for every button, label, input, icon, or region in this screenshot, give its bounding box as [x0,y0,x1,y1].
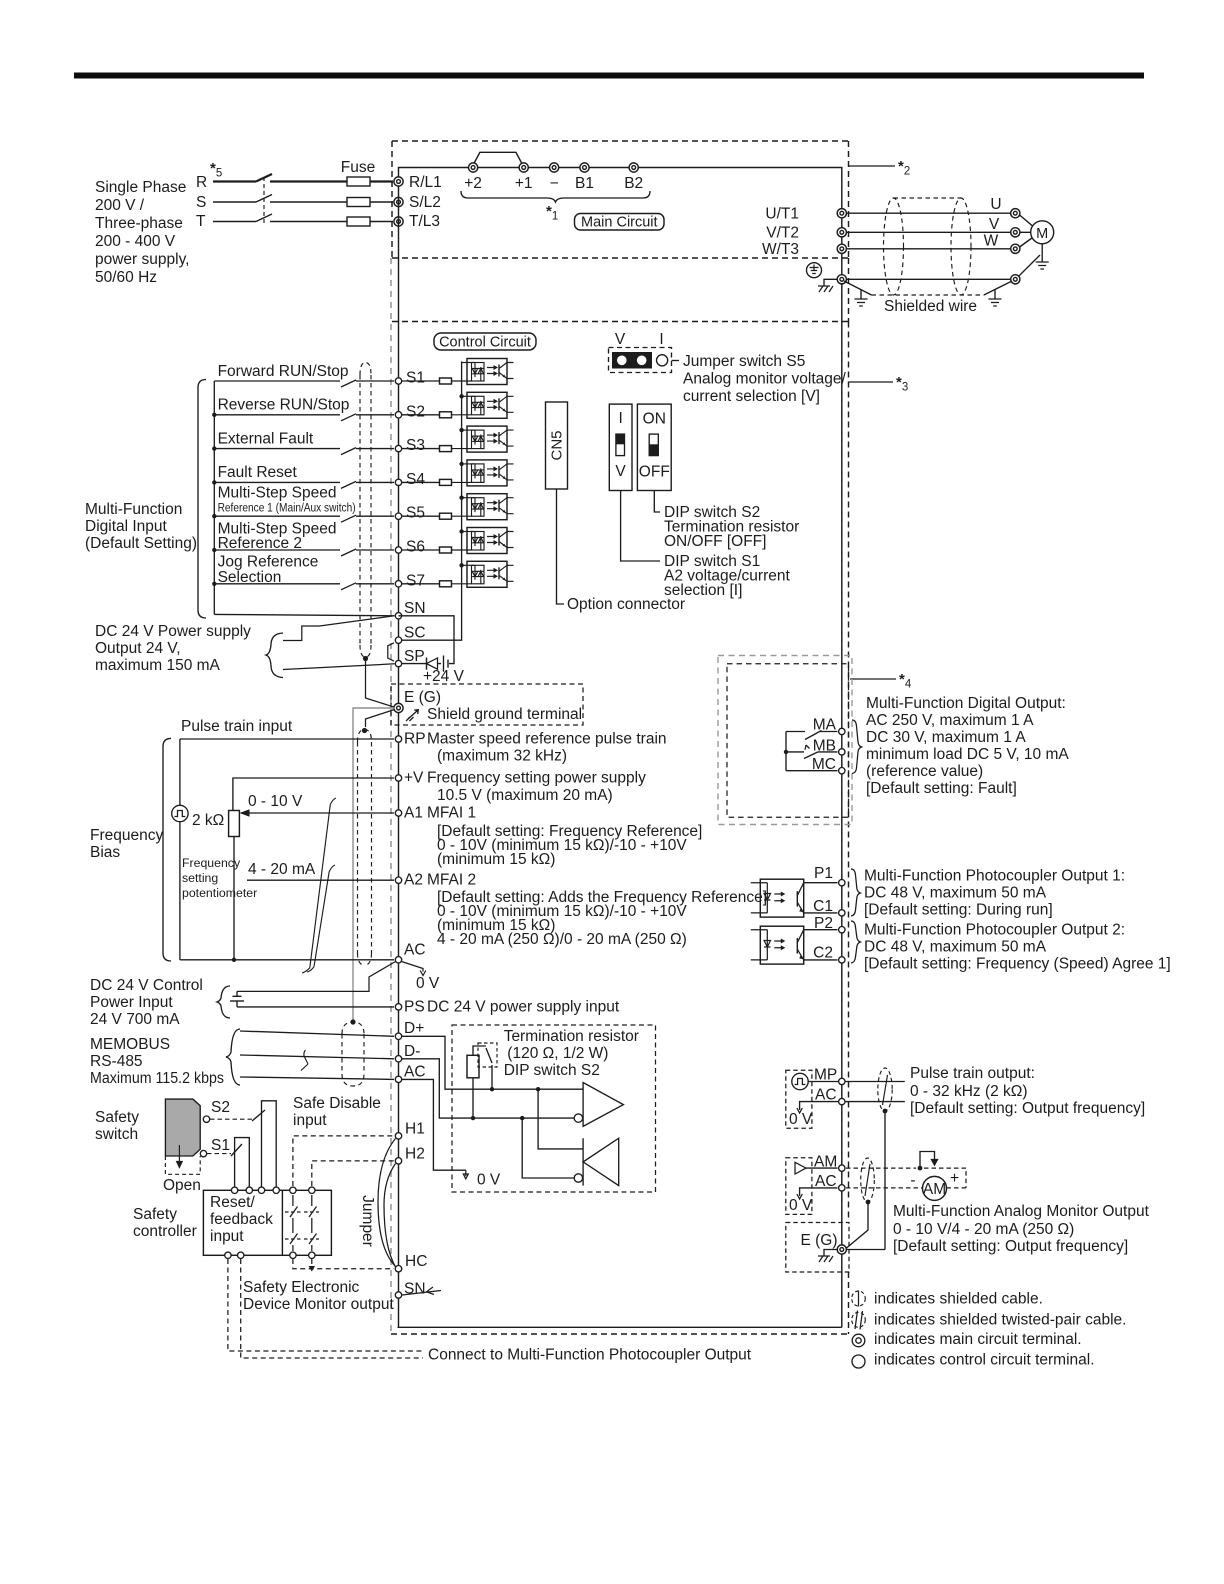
battery brace [217,986,230,1018]
terminal S4 [395,479,401,485]
svg-text:H2: H2 [405,1146,425,1163]
safe disable dashed wires to H1 H2 [293,1136,394,1186]
svg-text:Jog Reference: Jog Reference [218,554,319,571]
svg-text:W/T3: W/T3 [762,241,799,258]
opto-isolator input S6 [402,549,440,551]
svg-text:+2: +2 [464,175,482,192]
terminal S6 [395,547,401,553]
note *4 callout [850,678,896,680]
legend control circuit terminal [852,1355,865,1368]
svg-text:indicates shielded twisted-pai: indicates shielded twisted-pair cable. [874,1312,1126,1329]
SC-SP bracket [388,643,394,661]
pulse output shield cable [878,1068,892,1111]
S1 contact [200,1150,206,1156]
terminal D- [240,1055,394,1059]
svg-text:AM: AM [814,1154,837,1171]
svg-text:SP: SP [404,648,425,665]
digital input S3 row [214,448,394,455]
E(G) shield ground dashed box [391,684,583,725]
svg-text:C1: C1 [813,898,833,915]
svg-text:T/L3: T/L3 [409,213,440,230]
digital input S2 row [214,414,394,421]
svg-text:A1: A1 [404,805,423,822]
junction dots on common bus [212,413,216,586]
driver buffer triangle [583,1083,623,1127]
svg-text:indicates shielded cable.: indicates shielded cable. [874,1291,1043,1308]
svg-text:V: V [615,463,626,480]
terminal MP [808,1081,905,1083]
svg-text:M: M [1036,226,1048,242]
svg-text:Control Circuit: Control Circuit [439,335,531,351]
terminal MC [839,768,845,774]
digital input S7 row [214,583,394,590]
E(G) wire to shield drain [846,1249,885,1251]
wire R fuse to terminal [370,180,393,182]
svg-text:0 V: 0 V [789,1111,813,1128]
svg-text:S2: S2 [211,1099,230,1116]
svg-text:Pulse train input: Pulse train input [181,718,293,735]
svg-text:D+: D+ [404,1020,424,1037]
svg-text:D-: D- [404,1043,420,1060]
wire S with disconnect switch [213,195,393,203]
svg-text:DC 48 V, maximum 50 mA: DC 48 V, maximum 50 mA [864,939,1047,956]
svg-text:power supply,: power supply, [95,251,189,268]
svg-text:DC 24 V Power supply: DC 24 V Power supply [95,623,251,640]
svg-text:0 V: 0 V [477,1172,501,1189]
svg-text:Three-phase: Three-phase [95,215,183,232]
svg-text:50/60 Hz: 50/60 Hz [95,269,157,286]
svg-text:A2: A2 [404,872,423,889]
analog input shield cable [358,730,372,966]
switch gang dashed link [263,177,265,226]
svg-text:indicates control circuit term: indicates control circuit terminal. [874,1352,1095,1369]
svg-text:T: T [196,213,206,230]
svg-text:DC 24 V Control: DC 24 V Control [90,977,203,994]
svg-text:Shielded wire: Shielded wire [884,298,977,315]
relay contact assembly [786,732,838,771]
terminal W/T3 [837,244,846,253]
legend main circuit terminal [852,1334,865,1347]
motor-side terminal W [1011,244,1020,253]
terminal T/L3 [394,217,403,226]
reset/feedback box [203,1190,331,1255]
svg-text:OFF: OFF [639,464,670,481]
fuse R [347,177,370,186]
svg-text:Termination resistor: Termination resistor [504,1028,639,1045]
svg-text:U: U [990,196,1001,213]
svg-text:Safe Disable: Safe Disable [293,1095,381,1112]
terminal MB [818,751,838,753]
DIP switch S1 callout [621,491,660,562]
opto-isolator input S1 [440,359,514,385]
svg-text:(Default Setting): (Default Setting) [85,535,197,552]
svg-text:setting: setting [182,871,218,885]
svg-text:W: W [984,233,999,250]
battery to AC return wire [237,962,396,992]
photocoupler 2 brace [851,921,860,963]
svg-text:CN5: CN5 [549,430,566,460]
AM meter dashed wiring box [846,1168,966,1188]
terminal S2 [395,412,401,418]
terminal AC analog common [180,959,394,961]
svg-text:Open: Open [163,1177,201,1194]
svg-text:0 V: 0 V [789,1197,813,1214]
svg-text:input: input [210,1228,244,1245]
svg-text:S7: S7 [406,572,425,589]
svg-text:HC: HC [405,1253,427,1270]
terminal PS [237,1006,394,1008]
driver inversion bubble [574,1114,582,1122]
S2 contact [203,1116,209,1122]
0V arrow AM section [797,1194,802,1199]
svg-text:DC 30 V, maximum 1 A: DC 30 V, maximum 1 A [866,729,1026,746]
svg-text:S2: S2 [406,403,425,420]
SN wire to common bus [214,614,394,615]
svg-text:+1: +1 [515,175,533,192]
shield drain to E(G) [884,1111,886,1250]
ground terminal on rail [837,275,846,284]
0V arrow at AC [402,962,426,976]
shield drains to E(G) [366,660,395,727]
bottom rail wire [398,1326,842,1328]
svg-text:Multi-Function Analog Monitor: Multi-Function Analog Monitor Output [893,1203,1150,1220]
receive inversion bubble [574,1174,582,1182]
svg-text:B2: B2 [624,175,643,192]
svg-text:−: − [550,175,559,192]
svg-text:Fuse: Fuse [341,159,375,176]
svg-text:Multi-Step Speed: Multi-Step Speed [218,485,337,502]
svg-text:AC: AC [815,1173,837,1190]
SN to SP link wire [399,616,455,664]
terminal S5 [395,513,401,519]
svg-text:H1: H1 [405,1121,425,1138]
svg-text:B1: B1 [575,175,594,192]
Multi-Function Digital Input bracket [198,380,206,619]
pulse source symbol [172,805,188,821]
svg-text:S: S [196,194,206,211]
termination resistor element [467,1055,479,1078]
analog monitor amp triangle [795,1162,806,1174]
analog monitor dashed box [786,1158,812,1215]
terminal MA [820,731,838,733]
svg-text:Main Circuit: Main Circuit [581,215,658,231]
jumper wires H1 H2 to HC [378,1139,396,1267]
DIP switch S2 body [637,404,671,490]
motor wire U [846,212,1010,214]
svg-text:I: I [659,331,663,348]
header rule [74,73,1144,79]
svg-text:+24 V: +24 V [423,668,465,685]
terminal C1 [804,912,838,914]
terminal HC [395,1266,401,1272]
svg-text:MEMOBUS: MEMOBUS [90,1036,170,1053]
inverter right-side rail [841,209,843,1328]
S1 contact loop [235,1138,250,1191]
terminal +2 [469,163,478,172]
terminal R/L1 [394,177,403,186]
svg-text:MFAI 1: MFAI 1 [427,805,476,822]
svg-text:[Default setting: Output frequ: [Default setting: Output frequency] [893,1238,1128,1255]
svg-text:U/T1: U/T1 [765,206,799,223]
DIP switch S1 body [609,404,632,490]
svg-text:Safety: Safety [133,1206,177,1223]
svg-text:V: V [615,331,626,348]
svg-text:controller: controller [133,1223,197,1240]
MEMOBUS shield cable [342,1022,364,1086]
svg-text:DC 24 V power supply input: DC 24 V power supply input [427,998,620,1015]
terminal RP [180,738,394,740]
svg-text:4 - 20 mA: 4 - 20 mA [248,861,316,878]
fuse S [347,198,370,207]
box pin circles [225,1187,315,1258]
svg-text:200 - 400 V: 200 - 400 V [95,233,176,250]
chassis ground hatch [824,279,837,286]
battery symbol [236,991,238,1007]
svg-text:(minimum 15 kΩ): (minimum 15 kΩ) [437,851,555,868]
svg-text:[Default setting: Fault]: [Default setting: Fault] [866,780,1017,797]
terminal U/T1 [837,209,846,218]
HC dashed wires [293,1259,394,1269]
svg-text:Power Input: Power Input [90,994,173,1011]
svg-text:Multi-Function Photocoupler Ou: Multi-Function Photocoupler Output 1: [864,868,1125,885]
svg-text:switch: switch [95,1126,138,1143]
svg-text:potentiometer: potentiometer [182,886,257,900]
svg-text:S1: S1 [211,1137,230,1154]
svg-text:S4: S4 [406,471,425,488]
svg-text:0 V: 0 V [416,975,440,992]
svg-text:AC 250 V, maximum 1 A: AC 250 V, maximum 1 A [866,712,1034,729]
MEMOBUS twist slash [301,1050,308,1071]
terminal V/T2 [837,228,846,237]
svg-text:4 - 20 mA (250 Ω)/0 - 20 mA (2: 4 - 20 mA (250 Ω)/0 - 20 mA (250 Ω) [437,931,687,948]
svg-text:0 - 32 kHz (2 kΩ): 0 - 32 kHz (2 kΩ) [910,1083,1028,1100]
svg-text:(reference value): (reference value) [866,763,983,780]
svg-text:Connect to Multi-Function Phot: Connect to Multi-Function Photocoupler O… [428,1347,752,1364]
svg-text:AM: AM [923,1181,946,1198]
svg-text:S3: S3 [406,437,425,454]
svg-text:S6: S6 [406,539,425,556]
svg-text:P2: P2 [814,915,833,932]
note *2 callout [849,165,896,167]
note *3 callout [849,381,893,383]
receive buffer triangle [583,1138,619,1185]
svg-text:SC: SC [404,625,426,642]
terminal AM [806,1167,838,1169]
svg-text:DIP switch S2: DIP switch S2 [504,1062,600,1079]
digital input S6 row [214,549,394,556]
terminal AC pulse common [800,1102,905,1110]
svg-text:AC: AC [815,1087,837,1104]
terminal P1 [804,882,838,884]
feedback relay contacts [285,1195,319,1251]
svg-text:DC 48 V, maximum 50 mA: DC 48 V, maximum 50 mA [864,885,1047,902]
earth stake right [994,290,996,299]
S2 contact loop [262,1101,277,1191]
safety switch body [165,1099,200,1156]
terminal B2 [629,163,638,172]
shield ground arrow symbol [408,710,418,719]
svg-text:input: input [293,1112,327,1129]
svg-text:Analog monitor voltage/: Analog monitor voltage/ [683,371,847,388]
opto-isolator input S2 [402,414,440,416]
svg-text:200 V /: 200 V / [95,197,145,214]
svg-text:Frequency: Frequency [182,856,241,870]
motor wire W [846,248,1010,250]
open arrow [177,1145,183,1168]
opto-isolator input S7 [402,583,440,585]
svg-text:0 - 10 V: 0 - 10 V [248,793,303,810]
terminal AC monitor common [800,1188,838,1196]
left terminal rail [398,186,400,1327]
svg-text:Bias: Bias [90,844,120,861]
svg-text:MA: MA [813,717,837,734]
svg-text:Forward RUN/Stop: Forward RUN/Stop [218,363,349,380]
opto rail junction dots [459,394,463,567]
terminal S7 [395,581,401,587]
svg-text:minimum load DC 5 V, 10 mA: minimum load DC 5 V, 10 mA [866,746,1069,763]
photocoupler 1 brace [851,869,860,916]
svg-text:S1: S1 [406,370,425,387]
shield drain diagonal to E(G) [847,1202,869,1248]
terminal H1 [395,1133,401,1139]
pulse output source symbol [792,1073,808,1089]
terminal A1 with 0-10V wire [241,812,394,814]
svg-text:Selection: Selection [218,569,282,586]
grey shield drain wire down to MEMOBUS cable [353,708,395,1020]
svg-text:E (G): E (G) [801,1232,838,1249]
svg-text:Fault Reset: Fault Reset [218,464,298,481]
motor-side terminal V [1011,228,1020,237]
motor-side ground terminal [1011,275,1020,284]
svg-text:MFAI 2: MFAI 2 [427,872,476,889]
digital input common bus vertical [213,381,215,614]
svg-text:RS-485: RS-485 [90,1053,143,1070]
MEMOBUS brace [226,1029,240,1085]
svg-text:2 kΩ: 2 kΩ [192,812,224,829]
svg-text:Reverse RUN/Stop: Reverse RUN/Stop [218,397,350,414]
svg-text:[Default setting: Output frequ: [Default setting: Output frequency] [910,1100,1145,1117]
terminal SN bottom [395,1292,401,1298]
fuse T [347,217,370,226]
svg-text:E (G): E (G) [404,689,441,706]
safety monitor output dashed wires [228,1259,423,1351]
svg-text:+: + [950,1170,959,1187]
AM meter [923,1176,947,1200]
svg-text:Reset/: Reset/ [210,1194,255,1211]
SN stub arrow [402,1287,441,1295]
svg-text:indicates main circuit termina: indicates main circuit terminal. [874,1331,1082,1348]
svg-text:RP: RP [404,731,426,748]
svg-text:maximum 150 mA: maximum 150 mA [95,657,221,674]
svg-text:(120 Ω, 1/2 W): (120 Ω, 1/2 W) [507,1045,608,1062]
D- wire into receiver [402,1059,575,1118]
enclosure: main circuit dashed box [392,141,849,258]
svg-text:Safety Electronic: Safety Electronic [243,1279,360,1296]
svg-text:AC: AC [404,1064,426,1081]
wire T with disconnect switch [213,214,393,222]
svg-text:Shield ground terminal: Shield ground terminal [427,706,582,723]
legend twisted pair [852,1312,866,1327]
branch to receive buffer [538,1089,583,1185]
Control Circuit label box [434,333,536,350]
24V output callout wires [283,616,395,670]
frequency setting potentiometer [229,811,240,837]
svg-text:ON/OFF [OFF]: ON/OFF [OFF] [664,533,766,550]
svg-text:Reference 2: Reference 2 [218,535,302,552]
svg-text:Jumper: Jumper [359,1195,376,1247]
svg-text:Frequency setting power supply: Frequency setting power supply [427,770,646,787]
wire S1 to opto [402,380,440,382]
DIP switch S2 callout [654,491,660,513]
svg-text:current selection [V]: current selection [V] [683,388,820,405]
terminal E(G) bottom [837,1245,846,1254]
svg-text:S5: S5 [406,505,425,522]
main circuit DC bus wire [399,168,842,209]
enclosure left grey dashed edge [390,258,392,1334]
AM meter jumper loop [920,1152,938,1169]
svg-text:[Default setting: During run]: [Default setting: During run] [864,902,1053,919]
option connector CN5 [546,402,568,489]
svg-text:-: - [910,1172,915,1189]
terminal S/L2 [394,197,403,206]
svg-text:Maximum 115.2 kbps: Maximum 115.2 kbps [90,1070,224,1087]
motor-side terminal U [1011,209,1020,218]
terminal SP [395,660,401,666]
svg-text:MP: MP [814,1067,837,1084]
terminal E(G) shield ground [394,703,403,712]
svg-text:PS: PS [404,998,425,1015]
svg-text:S/L2: S/L2 [409,194,441,211]
svg-text:+V: +V [404,770,424,787]
svg-text:Frequency: Frequency [90,827,163,844]
svg-text:I: I [618,410,622,427]
motor wire V [846,231,1010,233]
motor ground [1041,244,1043,262]
svg-text:C2: C2 [813,945,833,962]
svg-text:V: V [989,216,1000,233]
svg-text:Master speed reference pulse: Master speed reference pulse train [427,731,667,748]
digital input S5 row [214,515,394,522]
svg-text:0 - 10 V/4 - 20 mA (250 Ω): 0 - 10 V/4 - 20 mA (250 Ω) [893,1221,1074,1238]
Main Circuit label box [575,214,665,231]
terminal D+ [240,1031,394,1036]
receive input wire [522,1118,574,1178]
terminal SN [395,613,401,619]
svg-text:ON: ON [643,410,666,427]
E(G) bottom dashed box [786,1223,849,1273]
shield drain diagonals [844,281,1012,295]
earth stake left [860,290,862,299]
svg-text:feedback: feedback [210,1211,273,1228]
terminal H2 [395,1158,401,1164]
svg-text:10.5 V (maximum 20 mA): 10.5 V (maximum 20 mA) [437,787,613,804]
analog monitor shield cable [861,1158,875,1202]
relay outer grey dashed box [718,656,852,825]
motor leads [1020,215,1033,247]
terminal B1 [580,163,589,172]
terminal AC serial common [240,1077,394,1079]
svg-text:Output 24 V,: Output 24 V, [95,640,181,657]
open dashed box [165,1156,200,1174]
svg-text:External Fault: External Fault [218,430,314,447]
wire R with disconnect switch [213,174,347,182]
svg-text:Reference 1 (Main/Aux switch): Reference 1 (Main/Aux switch) [218,501,356,515]
motor ground lead diagonal [1019,255,1040,276]
digital input S1 row: wire and switch [214,380,394,387]
shielded cable ellipses [872,198,984,295]
svg-text:P1: P1 [814,865,833,882]
digital input shield cable [360,363,371,658]
